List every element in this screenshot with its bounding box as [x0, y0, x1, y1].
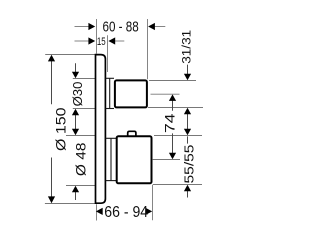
- svg-text:15: 15: [97, 36, 106, 48]
- svg-text:31/31: 31/31: [179, 30, 193, 64]
- svg-text:55/55: 55/55: [182, 145, 197, 184]
- svg-text:60 - 88: 60 - 88: [103, 19, 139, 35]
- svg-text:66 - 94: 66 - 94: [104, 204, 148, 221]
- svg-text:Ø 48: Ø 48: [74, 142, 89, 176]
- svg-text:Ø30: Ø30: [70, 82, 85, 107]
- svg-text:Ø 150: Ø 150: [53, 107, 69, 151]
- svg-text:74: 74: [162, 113, 177, 133]
